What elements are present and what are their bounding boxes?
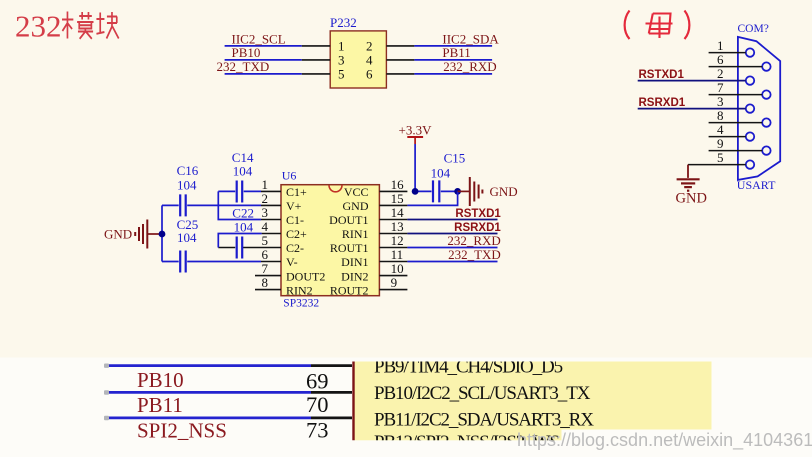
wire IIC2_SDA <box>414 45 492 47</box>
wire IIC2_SCL <box>225 45 302 47</box>
svg-text:9: 9 <box>391 275 398 290</box>
wire SPI2_NSS row <box>108 417 311 420</box>
svg-text:10: 10 <box>391 261 404 276</box>
svg-text:PB10: PB10 <box>137 368 184 392</box>
svg-text:PB11: PB11 <box>137 393 183 417</box>
svg-text:7: 7 <box>717 80 724 95</box>
wire 232_TXD <box>225 73 302 75</box>
svg-text:8: 8 <box>262 275 269 290</box>
ground under DB9 pin5 <box>676 165 707 207</box>
svg-text:6: 6 <box>366 67 373 82</box>
U6 right pin stubs <box>379 191 407 289</box>
svg-text:232_RXD: 232_RXD <box>447 233 500 248</box>
U6 right pin numbers <box>391 177 405 290</box>
U6 left pin names <box>286 185 325 297</box>
clipped row PB12 <box>374 432 559 453</box>
wire 232_TXD (pin11) <box>407 261 497 263</box>
svg-text:C14: C14 <box>232 150 254 165</box>
svg-text:RIN1: RIN1 <box>342 227 369 241</box>
capacitor C25 <box>162 217 261 273</box>
svg-text:C1-: C1- <box>286 213 304 227</box>
svg-text:2: 2 <box>262 191 269 206</box>
svg-text:104: 104 <box>234 219 254 234</box>
DB9 pins circles <box>746 48 771 168</box>
svg-text:232_RXD: 232_RXD <box>443 59 496 74</box>
svg-text:RSRXD1: RSRXD1 <box>639 97 686 109</box>
svg-text:IIC2_SCL: IIC2_SCL <box>232 31 286 46</box>
wire 232_RXD <box>414 73 492 75</box>
svg-text:PB11/I2C2_SDA/USART3_RX: PB11/I2C2_SDA/USART3_RX <box>374 410 594 431</box>
svg-text:8: 8 <box>717 108 724 123</box>
svg-text:+3.3V: +3.3V <box>399 123 433 138</box>
svg-text:3: 3 <box>338 53 345 68</box>
white backing strip <box>0 358 812 457</box>
svg-text:SPI2_NSS: SPI2_NSS <box>137 419 227 443</box>
grey tips of wires <box>104 364 109 421</box>
U6 left pin stubs <box>243 191 281 289</box>
svg-text:GND: GND <box>676 191 707 207</box>
svg-text:7: 7 <box>262 261 269 276</box>
capacitor C16 <box>162 163 261 216</box>
svg-text:3: 3 <box>262 205 269 220</box>
svg-text:6: 6 <box>717 52 724 67</box>
svg-text:12: 12 <box>391 233 404 248</box>
svg-text:16: 16 <box>391 177 405 192</box>
svg-text:PB10/I2C2_SCL/USART3_TX: PB10/I2C2_SCL/USART3_TX <box>374 383 591 404</box>
svg-text:6: 6 <box>262 247 269 262</box>
wire C15 to GND pin15 <box>407 191 457 205</box>
svg-text:4: 4 <box>262 219 269 234</box>
svg-text:104: 104 <box>177 230 197 245</box>
svg-text:15: 15 <box>391 191 404 206</box>
svg-text:V+: V+ <box>286 199 302 213</box>
svg-text:C15: C15 <box>444 150 466 165</box>
svg-text:IIC2_SDA: IIC2_SDA <box>442 31 499 46</box>
U6 right pin names <box>329 185 369 297</box>
wire 232_RXD (pin12) <box>407 247 497 249</box>
svg-text:5: 5 <box>338 67 345 82</box>
svg-text:2: 2 <box>366 39 373 54</box>
DB9 pin stubs <box>688 53 762 165</box>
svg-text:GND: GND <box>343 199 369 213</box>
svg-text:USART: USART <box>737 178 776 192</box>
pin 4 circle <box>746 132 754 140</box>
svg-text:ROUT1: ROUT1 <box>330 241 369 255</box>
svg-text:C16: C16 <box>177 163 199 178</box>
svg-text:P232: P232 <box>330 15 357 30</box>
svg-text:104: 104 <box>431 165 451 180</box>
svg-text:13: 13 <box>391 219 404 234</box>
svg-text:C2+: C2+ <box>286 227 307 241</box>
svg-text:GND: GND <box>490 184 518 199</box>
wire RSTXD1 (pin14) <box>407 219 497 221</box>
svg-text:C22: C22 <box>232 206 254 221</box>
wire +3.3V to VCC <box>414 144 416 191</box>
svg-text:104: 104 <box>177 177 197 192</box>
svg-text:1: 1 <box>338 39 345 54</box>
wire C14 to pin3 <box>218 191 261 219</box>
svg-text:C1+: C1+ <box>286 185 307 199</box>
svg-text:SP3232: SP3232 <box>283 298 319 310</box>
wire RSRXD1 to pin3 <box>638 108 746 110</box>
capacitor C14 <box>218 150 261 203</box>
svg-text:PB11: PB11 <box>442 45 470 60</box>
svg-text:5: 5 <box>262 233 269 248</box>
svg-text:70: 70 <box>306 392 329 417</box>
notch <box>329 185 342 192</box>
pin 6 circle <box>762 62 770 70</box>
pin 9 circle <box>762 146 770 154</box>
DB9 pin numbers <box>717 38 724 165</box>
svg-text:11: 11 <box>391 247 404 262</box>
pin 1 circle <box>746 48 754 56</box>
wire RSRXD1 (pin13) <box>407 233 497 235</box>
pin 7 circle <box>762 90 770 98</box>
svg-text:232_TXD: 232_TXD <box>217 59 270 74</box>
ground symbol left <box>135 220 147 249</box>
svg-text:4: 4 <box>366 53 373 68</box>
wire PB11 row <box>108 391 311 394</box>
svg-text:DIN2: DIN2 <box>341 269 368 283</box>
DB9 outline <box>738 37 780 180</box>
svg-text:1: 1 <box>262 177 269 192</box>
svg-text:2: 2 <box>717 66 724 81</box>
svg-text:232: 232 <box>15 9 62 44</box>
power +3.3V <box>399 123 433 145</box>
svg-text:DOUT1: DOUT1 <box>329 213 368 227</box>
svg-text:PB10: PB10 <box>232 45 261 60</box>
capacitor C15 <box>415 150 465 202</box>
svg-text:U6: U6 <box>282 169 297 183</box>
capacitor C22 <box>218 206 254 259</box>
junction VCC <box>412 188 419 195</box>
pin 2 circle <box>746 76 754 84</box>
bottom crop: MCU pin table <box>0 357 812 457</box>
wire GND to junction <box>147 233 162 235</box>
svg-text:1: 1 <box>717 38 724 53</box>
chip border line <box>352 362 354 441</box>
yellow block <box>355 362 712 430</box>
svg-text:69: 69 <box>306 369 329 394</box>
title 232模块 <box>15 9 119 44</box>
svg-text:COM?: COM? <box>738 23 769 35</box>
wire RSTXD1 to pin2 <box>638 80 746 82</box>
IC U6 SP3232 <box>281 169 379 310</box>
junction C15 right <box>454 188 461 195</box>
svg-text:V-: V- <box>286 255 298 269</box>
svg-text:ROUT2: ROUT2 <box>330 283 369 297</box>
svg-text:3: 3 <box>717 94 724 109</box>
svg-text:232_TXD: 232_TXD <box>448 247 501 262</box>
pin 3 circle <box>746 104 754 112</box>
U6 left pin numbers <box>262 177 269 290</box>
svg-text:5: 5 <box>717 150 724 165</box>
svg-text:DOUT2: DOUT2 <box>286 269 325 283</box>
ground symbol right <box>470 177 483 206</box>
svg-text:C2-: C2- <box>286 241 304 255</box>
svg-text:GND: GND <box>104 227 132 242</box>
svg-text:DIN1: DIN1 <box>341 255 368 269</box>
wire PB10 <box>225 59 302 61</box>
svg-text:4: 4 <box>717 122 724 137</box>
wire PB10 row <box>108 364 311 367</box>
junction left GND <box>159 231 166 238</box>
wire junction to right ground <box>458 190 470 192</box>
wire PB11 <box>414 59 492 61</box>
connector P232 <box>330 15 386 88</box>
pin 8 circle <box>762 118 770 126</box>
P232 pin stubs <box>302 46 415 74</box>
svg-text:RIN2: RIN2 <box>286 283 313 297</box>
svg-text:VCC: VCC <box>344 185 369 199</box>
svg-text:https://blog.csdn.net/weixin_4: https://blog.csdn.net/weixin_41043617 <box>517 430 812 451</box>
svg-text:RSTXD1: RSTXD1 <box>455 208 501 220</box>
svg-text:104: 104 <box>233 164 253 179</box>
left vertical wire (GND net) <box>161 205 163 261</box>
svg-text:RSTXD1: RSTXD1 <box>639 69 685 81</box>
pin 5 circle <box>746 160 754 168</box>
wire C22 to pin4 <box>218 234 261 248</box>
svg-text:9: 9 <box>717 136 724 151</box>
svg-text:14: 14 <box>391 205 405 220</box>
label （母） <box>625 11 690 40</box>
svg-text:73: 73 <box>306 418 329 443</box>
